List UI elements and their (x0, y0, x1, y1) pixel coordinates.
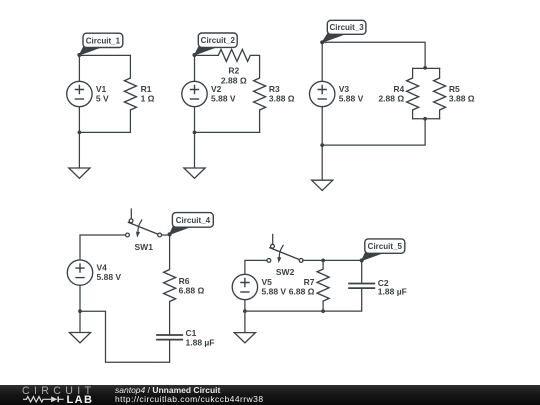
label R4 2.88 ohm (378, 84, 404, 104)
label C1 1.88 uF (186, 328, 215, 348)
svg-text:Circuit_4: Circuit_4 (176, 216, 211, 225)
voltage source V5 (232, 274, 257, 299)
wire (79, 54, 130, 56)
node Circuit_4 anchor and label (168, 213, 214, 237)
capacitor C2 (348, 284, 375, 289)
svg-text:2.88 Ω: 2.88 Ω (378, 94, 404, 104)
svg-text:R6: R6 (179, 276, 190, 286)
label V5 5.88 V (262, 277, 287, 297)
wire (194, 55, 196, 81)
wire (162, 235, 170, 270)
node Circuit_1 anchor and label (77, 33, 123, 57)
wire (169, 302, 171, 335)
switch SW1 (126, 208, 162, 251)
wire (80, 311, 170, 362)
voltage source V2 (182, 81, 207, 106)
wire (245, 260, 267, 274)
resistor R6 (164, 270, 176, 302)
svg-text:V2: V2 (211, 84, 222, 94)
label R5 3.88 ohm (449, 84, 475, 104)
svg-text:V5: V5 (262, 277, 273, 287)
svg-text:R4: R4 (393, 84, 404, 94)
wire (361, 260, 363, 283)
wire (245, 288, 362, 311)
wire (78, 107, 80, 133)
svg-text:SW1: SW1 (135, 242, 154, 252)
ground (69, 311, 90, 343)
wire (195, 54, 219, 56)
wire (195, 131, 260, 133)
svg-text:C1: C1 (186, 328, 197, 338)
ground (69, 132, 90, 178)
label R6 6.88 ohm (179, 276, 205, 296)
resistor R3 (254, 78, 266, 132)
wire parallel top bar (413, 67, 440, 69)
resistor R1 (124, 55, 136, 132)
node Circuit_2 anchor and label (192, 33, 237, 57)
label V2 5.88 V (211, 84, 236, 104)
wire (78, 55, 80, 81)
switch SW2 (267, 234, 303, 277)
svg-text:6.88 Ω: 6.88 Ω (179, 285, 205, 295)
svg-text:R3: R3 (269, 84, 280, 94)
svg-text:V4: V4 (97, 263, 108, 273)
node junction (243, 309, 247, 313)
resistor R5 (434, 68, 446, 118)
svg-text:5.88 V: 5.88 V (97, 272, 122, 282)
node junction (321, 259, 325, 263)
label V3 5.88 V (339, 84, 364, 104)
wire parallel bottom bar (413, 118, 440, 120)
footer bar (0, 385, 540, 405)
svg-text:V1: V1 (96, 84, 107, 94)
node Circuit_3 anchor and label (320, 20, 366, 44)
svg-text:1.88 µF: 1.88 µF (186, 338, 215, 348)
wire (80, 235, 126, 260)
svg-text:3.88 Ω: 3.88 Ω (449, 94, 475, 104)
svg-text:R7: R7 (304, 277, 315, 287)
svg-text:2.88 Ω: 2.88 Ω (221, 75, 247, 85)
svg-text:Circuit_2: Circuit_2 (201, 36, 236, 45)
node junction (78, 131, 82, 135)
svg-text:6.88 Ω: 6.88 Ω (289, 287, 315, 297)
svg-text:5.88 V: 5.88 V (339, 94, 364, 104)
wire (303, 259, 362, 261)
voltage source V1 (67, 81, 92, 106)
wire (322, 119, 425, 145)
voltage source V3 (310, 81, 335, 106)
node junction (78, 309, 82, 313)
wire (79, 131, 130, 133)
node junction bottom (423, 117, 427, 121)
label R7 6.88 ohm (289, 277, 315, 297)
svg-text:V3: V3 (339, 84, 350, 94)
ground (184, 132, 205, 178)
capacitor C1 (156, 335, 183, 340)
wire (194, 107, 196, 133)
svg-text:R1: R1 (141, 84, 152, 94)
label C2 1.88 uF (378, 278, 407, 296)
svg-text:Circuit_5: Circuit_5 (368, 242, 403, 251)
node junction (320, 143, 324, 147)
svg-text:1 Ω: 1 Ω (141, 94, 155, 104)
resistor R4 (407, 68, 419, 118)
svg-text:Circuit_3: Circuit_3 (329, 23, 364, 32)
wire (250, 55, 259, 78)
logo circuit glyph: wire resistor diode (20, 394, 90, 405)
node junction top (423, 66, 427, 70)
resistor R2 (218, 49, 250, 61)
wire (321, 42, 323, 81)
label R3 3.88 ohm (269, 84, 295, 104)
svg-text:Circuit_1: Circuit_1 (86, 36, 121, 45)
node junction (193, 131, 197, 135)
node Circuit_5 anchor and label (360, 239, 405, 263)
svg-text:SW2: SW2 (276, 267, 295, 277)
label V4 5.88 V (97, 263, 122, 283)
resistor R7 (317, 260, 329, 311)
wire (321, 107, 323, 146)
svg-text:5.88 V: 5.88 V (211, 94, 236, 104)
svg-text:1.88 µF: 1.88 µF (378, 287, 407, 297)
wire (79, 285, 81, 311)
svg-text:R2: R2 (228, 65, 239, 75)
ground (312, 145, 333, 190)
label R2 2.88 ohm (221, 65, 247, 85)
wire (244, 300, 246, 312)
svg-text:R5: R5 (449, 84, 460, 94)
svg-text:3.88 Ω: 3.88 Ω (269, 94, 295, 104)
ground (234, 311, 255, 343)
svg-text:5.88 V: 5.88 V (262, 287, 287, 297)
label R1 1 ohm (141, 84, 155, 104)
CircuitLab logo wordmark (22, 385, 95, 397)
svg-text:5 V: 5 V (96, 94, 109, 104)
node junction (321, 309, 325, 313)
voltage source V4 (67, 260, 92, 285)
label V1 5 V (96, 84, 109, 104)
wire (322, 42, 425, 68)
footer credit text (115, 385, 220, 395)
